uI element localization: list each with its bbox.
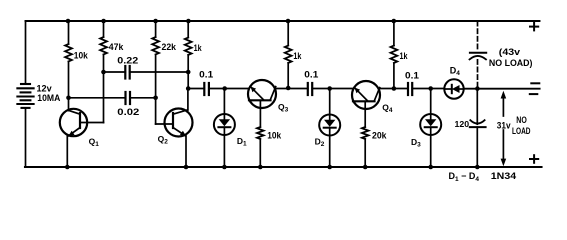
node dot top rail at R8 <box>392 19 397 24</box>
diode D4 (series rectifier) <box>444 79 463 98</box>
capacitor C6 label (43v NO LOAD) <box>489 47 533 68</box>
resistor R4 1k (Q2 collector load) <box>187 21 189 38</box>
capacitor C2 0.02 (Q1 collector to Q2 base coupling) <box>69 97 126 99</box>
wire minus output rail <box>464 88 540 90</box>
wire bottom ground rail <box>25 166 542 168</box>
node dot top rail at 1k <box>186 19 191 24</box>
node dot C7 bottom on ground rail <box>475 165 480 170</box>
node dot D3 top <box>428 86 433 91</box>
transistor Q3 <box>248 80 276 127</box>
svg-text:0.22: 0.22 <box>117 55 138 65</box>
battery B1 12v <box>17 84 33 108</box>
svg-text:Q2: Q2 <box>158 134 169 146</box>
wire left branch lower (battery bottom to ground rail) <box>25 109 27 168</box>
svg-text:10k: 10k <box>74 51 89 61</box>
plus terminal top right <box>530 23 538 31</box>
transistor Q4 <box>352 81 380 127</box>
plus terminal bottom right <box>530 155 538 163</box>
node dot C1 right on 1k line <box>186 70 191 75</box>
capacitor C4 0.1 (Q3 to Q4 coupling) <box>307 83 309 95</box>
svg-text:22k: 22k <box>162 42 177 52</box>
node dot C1 left on 47k line <box>101 70 106 75</box>
node dot Q2 emitter on ground rail <box>184 165 189 170</box>
svg-text:0.1: 0.1 <box>405 71 419 81</box>
svg-text:D2: D2 <box>315 137 325 149</box>
node dot Q1 emitter on ground rail <box>65 165 70 170</box>
svg-text:20k: 20k <box>372 131 387 141</box>
minus terminal (output) <box>531 82 539 84</box>
output label 31v NO LOAD <box>497 115 531 136</box>
svg-text:NO LOAD): NO LOAD) <box>489 58 533 68</box>
node dot D2 top <box>327 86 332 91</box>
svg-text:47k: 47k <box>109 42 124 52</box>
node dot D3 on ground rail <box>428 165 433 170</box>
wire Q3 output to C4 <box>276 88 308 90</box>
node dot 1k/C5 junction <box>392 86 397 91</box>
node dot 1k/C4 junction <box>286 86 291 91</box>
svg-text:(43v: (43v <box>499 47 520 57</box>
node dot top rail at 22k <box>153 19 158 24</box>
node dot C2 left on 10k line <box>66 96 71 101</box>
svg-text:120: 120 <box>455 119 470 129</box>
node dot D2 on ground rail <box>327 165 332 170</box>
wire interstage line at y 88.5 <box>188 88 204 90</box>
battery value label 12v 10MA <box>37 83 61 102</box>
wire left branch upper (battery top to rail) <box>25 21 27 84</box>
resistor R6 1k (Q3 stage feed) <box>287 21 289 46</box>
capacitor C6 43v reserve (dashed optional) <box>470 22 487 88</box>
transistor Q2 <box>156 89 193 168</box>
node dot top rail at 10k <box>66 19 71 24</box>
svg-text:1k: 1k <box>293 51 302 61</box>
capacitor C5 0.1 (Q4 output coupling) <box>407 83 409 95</box>
node dot top rail at R6 <box>286 19 291 24</box>
resistor R7 20k (Q4 base return) <box>362 127 369 139</box>
svg-text:0.1: 0.1 <box>304 69 318 79</box>
node dot R7 on ground rail <box>363 165 368 170</box>
node dot D1 on ground rail <box>222 165 227 170</box>
svg-text:0.02: 0.02 <box>117 107 139 117</box>
svg-text:D1: D1 <box>237 136 247 148</box>
node dot output junction <box>475 86 480 91</box>
svg-text:D1 − D4: D1 − D4 <box>449 171 480 183</box>
svg-text:D3: D3 <box>411 137 421 149</box>
svg-text:1N34: 1N34 <box>491 171 516 181</box>
node dot top rail at 47k <box>101 19 106 24</box>
wire Q4 output to C5 <box>380 88 408 90</box>
dimension arrow 31v output <box>501 91 507 167</box>
svg-text:Q1: Q1 <box>89 137 100 149</box>
wire top supply rail <box>26 20 540 22</box>
resistor R8 1k (Q4 stage feed) <box>393 21 395 46</box>
svg-text:LOAD: LOAD <box>512 126 531 136</box>
svg-text:NO: NO <box>516 115 527 125</box>
svg-text:1k: 1k <box>400 51 409 61</box>
capacitor C7 120 (output filter) <box>470 89 486 167</box>
svg-text:31v: 31v <box>497 121 511 131</box>
svg-text:0.1: 0.1 <box>199 70 213 80</box>
transistor Q1 <box>60 98 104 167</box>
svg-text:10k: 10k <box>267 131 282 141</box>
diode D3 <box>420 89 441 168</box>
resistor R3 22k (Q2 base bias) <box>155 21 157 37</box>
node dot Q2 collector junction <box>186 86 191 91</box>
diode D2 <box>319 89 340 168</box>
node dot R5 on ground rail <box>258 165 263 170</box>
svg-text:Q4: Q4 <box>382 102 393 114</box>
svg-text:D4: D4 <box>450 66 461 78</box>
resistor R5 10k (Q3 base return) <box>257 127 264 139</box>
diode D1 <box>214 89 235 168</box>
svg-text:1k: 1k <box>194 43 203 53</box>
capacitor C3 0.1 (Q2 to Q3 coupling) <box>203 83 205 95</box>
node dot D1 top <box>222 86 227 91</box>
resistor R1 10k (Q1 collector load) <box>68 21 70 44</box>
svg-text:10MA: 10MA <box>37 93 60 103</box>
capacitor C1 0.22 (Q2 collector to Q1 base coupling) <box>104 71 126 73</box>
node dot C2 right on 22k line <box>153 96 158 101</box>
resistor R2 47k (Q1 base bias) <box>103 21 105 37</box>
svg-text:Q3: Q3 <box>278 102 289 114</box>
